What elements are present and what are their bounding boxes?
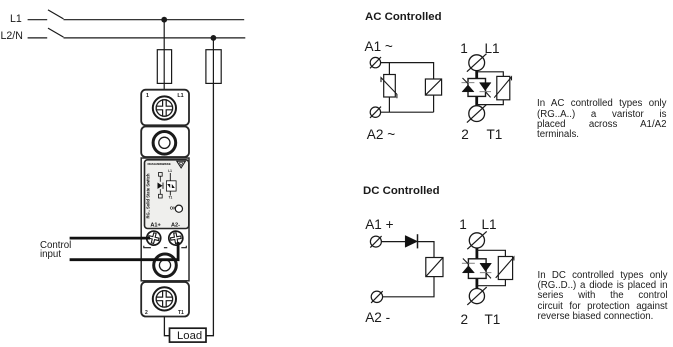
node junction dot on L1 bbox=[161, 17, 167, 23]
terminal cover outline marks bbox=[144, 246, 187, 248]
wire branch down to varistor bbox=[388, 63, 390, 75]
mini schematic: input wire bbox=[159, 176, 161, 194]
thick wire terminal to scr box bbox=[475, 71, 478, 79]
rivet ring upper bbox=[153, 132, 176, 155]
varistor parallel branch wires (AC) bbox=[477, 72, 504, 105]
label 1 (DC) bbox=[459, 217, 467, 232]
scr pair box (AC output) bbox=[462, 78, 492, 97]
wire diode to relay box bbox=[418, 242, 435, 258]
label 2 (DC) bbox=[461, 312, 469, 327]
mini schematic: output wire top bbox=[169, 173, 171, 181]
relay module RG body top terminal section bbox=[141, 90, 189, 126]
label A2 ~ bbox=[367, 127, 395, 142]
switch blade on L1 bbox=[48, 10, 64, 19]
title DC Controlled bbox=[363, 185, 440, 197]
terminal circle A1+ bbox=[370, 236, 381, 248]
varistor RV1 bbox=[381, 75, 397, 99]
wire L1 horizontal right segment bbox=[64, 19, 245, 21]
node junction dot on L2/N bbox=[211, 35, 217, 41]
terminal circle A2~ bbox=[370, 107, 381, 118]
wire varistor to bottom bbox=[388, 97, 390, 112]
mini schematic: scr box bbox=[166, 181, 176, 191]
control input wire A1 bbox=[70, 237, 150, 240]
wire A1 to varistor/relay bbox=[381, 63, 434, 79]
mini schematic: output wire bottom bbox=[169, 191, 171, 195]
relay module mid body bbox=[141, 158, 189, 281]
relay input box (AC) bbox=[425, 79, 441, 95]
svg-text:T1: T1 bbox=[169, 196, 173, 200]
thick wire scr box to bottom terminal (DC) bbox=[475, 278, 478, 288]
thick wire scr box to bottom terminal bbox=[475, 96, 478, 105]
wire L2/N horizontal right segment bbox=[64, 37, 246, 39]
title AC Controlled bbox=[365, 11, 442, 23]
switch blade on L2/N bbox=[48, 28, 64, 37]
paragraph DC bbox=[538, 271, 668, 323]
rivet ring lower bbox=[154, 254, 177, 277]
mini schematic: diode bbox=[158, 183, 164, 189]
svg-text:A2-: A2- bbox=[171, 223, 180, 229]
svg-text:RG.. Solid State Switch: RG.. Solid State Switch bbox=[145, 173, 150, 219]
bottom rail to A2 bbox=[381, 111, 434, 113]
LED indicator circle bbox=[175, 205, 182, 212]
wire L2/N horizontal left segment bbox=[28, 37, 48, 39]
label L2/N bbox=[1, 30, 23, 42]
diode D1 bbox=[405, 234, 417, 248]
relay module second section (rivet) bbox=[141, 127, 189, 158]
control screw A1 bbox=[145, 230, 162, 247]
varistor parallel branch wires (DC) bbox=[477, 250, 506, 285]
wire L1 horizontal left segment bbox=[28, 19, 48, 21]
relay front label plate bbox=[145, 160, 189, 229]
wire from L2/N node down to fuse F2 bbox=[212, 38, 214, 50]
mini schematic: input branch tiny box lower bbox=[159, 194, 163, 198]
terminal circle A1~ bbox=[370, 57, 381, 68]
wire relay box to bottom rail bbox=[433, 95, 435, 112]
svg-text:2: 2 bbox=[145, 310, 148, 316]
wire from L1 node down to fuse F1 bbox=[163, 20, 165, 50]
Load box bbox=[170, 328, 207, 342]
terminal circle A2- bbox=[371, 291, 383, 303]
relay input box (DC) bbox=[426, 258, 443, 277]
svg-text:T1: T1 bbox=[178, 310, 184, 316]
label A2 - bbox=[365, 310, 390, 325]
varistor RV3 (DC output) bbox=[496, 257, 514, 280]
control screw A2 bbox=[168, 230, 184, 246]
varistor RV2 (AC output) bbox=[494, 76, 511, 99]
label T1 (AC) bbox=[487, 127, 503, 142]
scr pair box (DC output) bbox=[462, 259, 492, 279]
terminal circle 1/L1 (DC output top) bbox=[467, 231, 486, 249]
label L1 (AC) bbox=[485, 41, 500, 56]
wire relay output to Load bbox=[164, 317, 169, 336]
label T1 (DC) bbox=[485, 312, 501, 327]
control input wire A2 bbox=[70, 242, 179, 260]
svg-text:1: 1 bbox=[146, 93, 149, 99]
screw terminal 2/T1 bbox=[153, 287, 176, 310]
screw terminal 1/L1 bbox=[153, 96, 176, 119]
svg-text:RGS1A60D92KKE: RGS1A60D92KKE bbox=[148, 162, 171, 166]
label A1 ~ bbox=[365, 39, 393, 54]
wire relay box to A2- bbox=[383, 277, 434, 297]
label 2 (AC) bbox=[461, 127, 469, 142]
wire from fuse F2 down right side to Load bbox=[206, 83, 213, 335]
svg-text:L1: L1 bbox=[177, 93, 183, 99]
label 1 (AC) bbox=[460, 41, 468, 56]
mini schematic: input branch tiny box upper bbox=[159, 173, 163, 177]
paragraph AC bbox=[537, 99, 667, 140]
thick wire terminal to scr box (DC) bbox=[475, 248, 478, 259]
label A1 + bbox=[365, 217, 393, 232]
terminal circle 1/L1 (AC output top) bbox=[467, 54, 487, 72]
fuse F1 bbox=[157, 50, 171, 84]
label L1 bbox=[10, 13, 22, 25]
relay module bottom terminal section bbox=[141, 282, 189, 317]
label L1 (DC) bbox=[482, 217, 497, 232]
svg-text:Load: Load bbox=[177, 330, 202, 342]
terminal circle 2/T1 (DC output bottom) bbox=[467, 287, 486, 305]
wire A1+ to diode bbox=[381, 241, 405, 243]
terminal circle 2/T1 (AC output bottom) bbox=[467, 105, 487, 123]
fuse F2 bbox=[206, 50, 221, 84]
svg-text:L1: L1 bbox=[168, 169, 172, 173]
wire from fuse F1 to relay top terminal bbox=[163, 83, 165, 89]
svg-text:A1+: A1+ bbox=[150, 223, 161, 229]
label Control input bbox=[40, 241, 71, 259]
logo triangle bbox=[177, 161, 186, 168]
